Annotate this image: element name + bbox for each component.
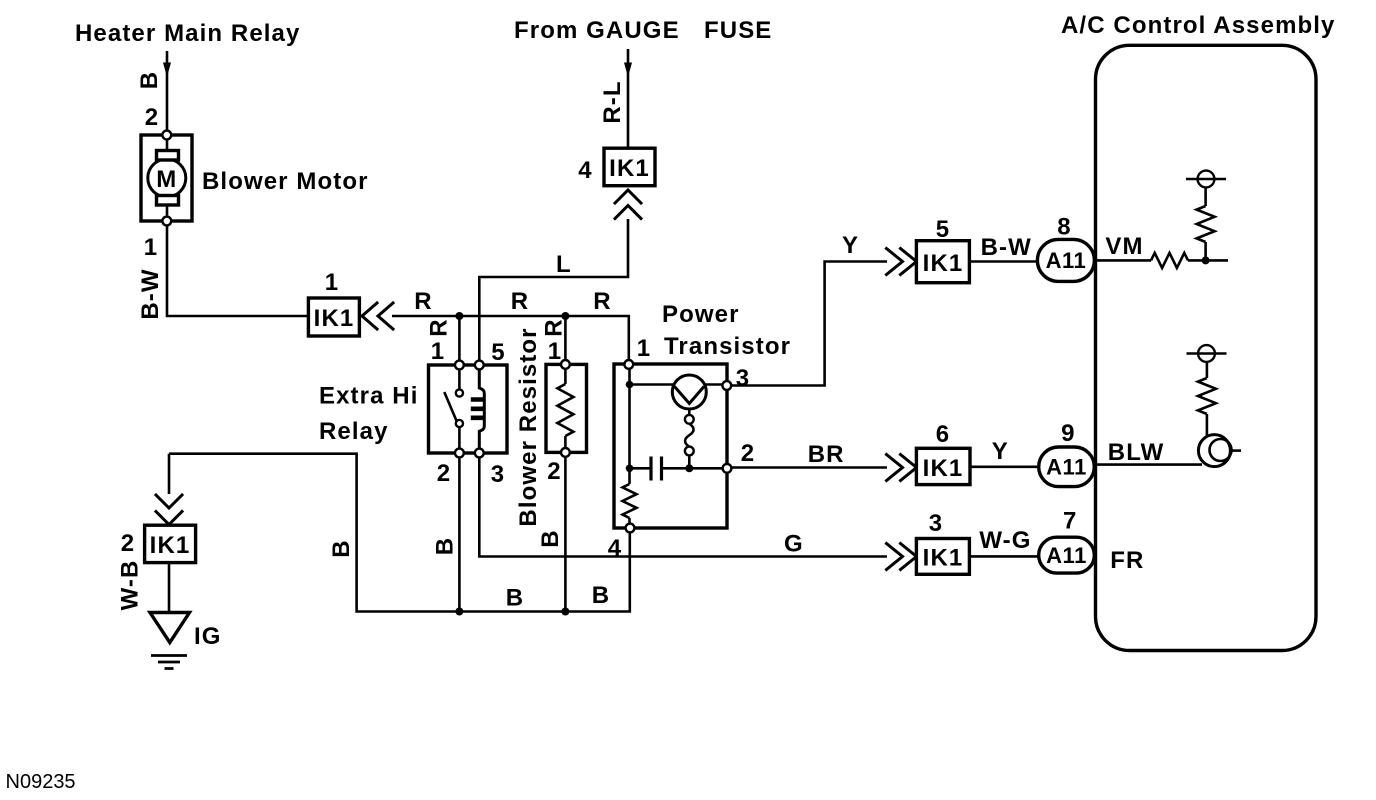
chevrons pointing right at IK1 pin 5 [887,249,917,275]
relay coil [479,369,484,449]
svg-text:IK1: IK1 [314,305,355,332]
internal vertical to pin 4 [628,518,631,524]
blower resistor box [546,364,587,452]
ground hatch [151,656,187,669]
small circle upper (thermo element) [685,415,694,424]
svg-text:Blower Motor: Blower Motor [202,168,369,195]
connector IK1 pin 4 box [604,148,655,186]
transistor circle [672,375,706,409]
svg-text:6: 6 [936,421,950,448]
resistor pin 2 circle [561,448,570,457]
svg-text:R: R [511,288,529,315]
relay switch lower contact [456,420,463,427]
svg-text:4: 4 [578,157,592,184]
svg-text:From GAUGE: From GAUGE [514,17,680,44]
svg-text:5: 5 [936,216,950,243]
svg-text:Y: Y [842,232,859,259]
potentiometer terminal circle with bar [1198,171,1215,188]
svg-text:M: M [156,166,177,193]
wire G from relay pin 3 to IK1 pin 3 [479,457,887,556]
connector A11 pin 8 oval [1037,239,1094,281]
power transistor Q1 [614,360,731,532]
svg-text:W-B: W-B [117,560,144,611]
wire R drop to Blower Resistor pin 1 [564,316,567,361]
motor brush bottom [157,196,179,206]
svg-text:L: L [556,251,572,278]
junction dot on R wire at relay branch [455,312,463,320]
junction dot on R wire at resistor branch [561,312,569,320]
svg-text:Y: Y [992,438,1009,465]
svg-text:Heater Main Relay: Heater Main Relay [75,20,300,47]
potentiometer terminal circle with bar lower [1198,345,1215,362]
svg-text:G: G [784,531,804,558]
chevrons pointing left at IK1 pin 1 [362,303,393,329]
svg-text:4: 4 [608,535,622,562]
wire to transistor circle [630,383,674,386]
svg-text:3: 3 [736,365,750,392]
wire B resistor pin 2 to bus [564,457,567,612]
svg-text:1: 1 [325,269,339,296]
svg-text:B: B [136,71,163,89]
svg-text:B: B [328,539,355,557]
relay pin 1 circle [455,361,464,370]
blower resistor R1 [546,360,587,457]
svg-text:Power: Power [662,301,740,328]
chevrons pointing down above IK1 pin 2 [156,495,182,525]
base wire with capacitor [630,467,652,470]
wire resistor to terminal circle [1204,188,1207,207]
svg-text:1: 1 [431,338,445,365]
resistor lead top [564,369,567,384]
junction dot bus at relay pin 2 [455,608,463,616]
resistor horizontal in assembly [1151,253,1188,268]
svg-text:2: 2 [145,104,159,131]
arrowhead on relay wire [163,63,171,78]
svg-text:R: R [414,288,432,315]
vertical resistor upper in assembly [1197,206,1215,242]
svg-text:FR: FR [1110,547,1144,574]
connector IK1 pin 6 box [916,448,970,484]
transistor circle in assembly [1198,435,1230,467]
resistor pin 1 circle [561,360,570,369]
resistor zigzag [557,384,573,436]
svg-text:R: R [426,318,453,336]
capacitor C1 plates [651,457,662,481]
relay switch lead from pin 1 [458,369,461,389]
svg-text:IK1: IK1 [923,250,964,277]
transistor inner V [675,387,705,404]
svg-text:A11: A11 [1046,543,1087,568]
svg-text:N09235: N09235 [6,771,76,793]
base wire capacitor to pin 2 [662,467,723,470]
wire up from assembly transistor [1206,414,1209,437]
relay switch lead to pin 2 [458,427,461,449]
svg-text:1: 1 [637,335,651,362]
small circle lower (thermo element) [685,447,694,456]
relay coil bars [471,400,485,418]
stub below circle [688,409,691,415]
chevrons pointing up below IK1 pin 4 [615,190,641,219]
svg-text:BR: BR [808,441,845,468]
wire resistor to terminal circle lower [1206,362,1209,378]
junction dot bus at resistor pin 2 [561,608,569,616]
wire IK1 pin 2 to IG ground [168,563,171,613]
wire B-W from IK1 to A11 [969,260,1037,263]
resistor lead bottom [564,436,567,448]
wire W-G from IK1 to A11 pin 7 [969,555,1038,558]
svg-text:B: B [506,585,524,612]
wire B-W from motor pin 1 to connector IK1 pin 1 [167,225,308,316]
svg-text:B: B [592,582,610,609]
svg-text:A/C Control Assembly: A/C Control Assembly [1061,12,1335,39]
connector IK1 pin 1 box [308,298,359,336]
A/C control assembly box [1096,45,1317,650]
vertical resistor lower in assembly [1198,378,1216,414]
svg-text:5: 5 [491,339,505,366]
stub to base node [688,455,691,468]
motor internal lead bottom [166,204,169,217]
wire from resistor to junction [1188,259,1228,262]
svg-text:IK1: IK1 [609,155,650,182]
arrowhead on gauge fuse wire [624,63,632,78]
wire from Heater Main Relay to Blower Motor pin 2 [166,51,169,135]
junction dot on left rail [626,465,634,473]
svg-text:W-G: W-G [979,527,1031,554]
svg-text:IK1: IK1 [923,545,964,572]
svg-text:VM: VM [1105,233,1143,260]
internal vertical from pin 1 [628,369,631,485]
relay switch upper contact [456,389,463,396]
wire R drop to Extra Hi Relay pin 1 [458,316,461,361]
power transistor box [614,364,727,528]
svg-text:Extra Hi: Extra Hi [319,383,419,410]
motor internal lead top [166,139,169,152]
internal resistor zigzag [623,484,637,518]
svg-text:R: R [593,288,611,315]
wire L from IK1 pin 4 down and left to relay pin 5 [479,219,628,361]
connector IK1 pin 2 box [145,525,196,562]
connector IK1 pin 3 box [916,539,969,575]
wire down to IK1 pin 2 [168,454,171,494]
svg-text:IG: IG [194,623,222,650]
svg-text:1: 1 [548,338,562,365]
wire BLW from A11 pin 9 into assembly [1096,463,1203,466]
svg-text:Transistor: Transistor [664,333,791,360]
svg-text:BLW: BLW [1108,439,1165,466]
svg-text:7: 7 [1063,508,1077,535]
relay box [429,365,508,453]
svg-text:2: 2 [741,440,755,467]
svg-text:FUSE: FUSE [704,17,772,44]
transistor pin 4 circle [626,524,635,533]
wire B ground bus from left branch [169,454,630,612]
svg-text:8: 8 [1057,214,1071,241]
transistor pin 1 circle [624,360,633,369]
wire VM node up to resistor [1204,242,1207,260]
wire B relay pin 2 to bus [458,457,461,611]
svg-text:B: B [432,537,459,555]
svg-text:9: 9 [1061,420,1075,447]
connector A11 pin 7 oval [1039,537,1095,573]
blower motor M1 [141,131,192,226]
wire R-L from GAUGE fuse down to IK1 pin 4 [627,49,630,148]
wire circle to pin 3 [705,383,723,386]
IG ground triangle [150,613,190,643]
chevrons pointing right at IK1 pin 3 [887,544,917,570]
stub right of assembly transistor [1231,449,1242,452]
svg-text:IK1: IK1 [150,532,191,559]
svg-text:2: 2 [437,460,451,487]
wire Y from transistor pin 3 to IK1 pin 5 [731,262,887,386]
wire BR from transistor pin 2 to IK1 pin 6 [731,466,887,469]
transistor pin 2 circle [723,464,732,473]
svg-text:A11: A11 [1046,248,1087,273]
svg-text:Blower Resistor: Blower Resistor [515,327,542,526]
junction dot collector branch [626,381,634,389]
relay K1 Extra Hi Relay [429,361,508,458]
motor outer box [141,135,192,221]
svg-text:B: B [537,529,564,547]
relay switch blade [444,392,457,422]
squiggle element [685,424,694,447]
junction dot VM node [1202,256,1210,264]
motor terminal pin 1 [162,217,171,226]
svg-text:B-W: B-W [981,234,1032,261]
svg-text:R: R [541,318,568,336]
connector A11 pin 9 oval [1039,447,1095,487]
motor circle M [148,159,186,197]
inner circle of assembly transistor [1210,439,1232,461]
svg-text:B-W: B-W [137,268,164,319]
svg-text:2: 2 [547,458,561,485]
svg-text:IK1: IK1 [923,455,964,482]
wire VM from A11 pin 8 into assembly [1096,259,1152,262]
svg-text:1: 1 [144,234,158,261]
svg-text:A11: A11 [1046,455,1087,480]
relay pin 2 circle [455,449,464,458]
chevrons pointing right at IK1 pin 6 [887,455,917,481]
svg-text:3: 3 [929,510,943,537]
svg-text:3: 3 [491,461,505,488]
transistor pin 3 circle [722,381,731,390]
svg-text:Relay: Relay [319,418,389,445]
motor terminal pin 2 [162,131,171,140]
connector IK1 pin 5 box [916,241,969,283]
wire Y from IK1 to A11 pin 9 [970,465,1039,468]
motor brush top [157,151,179,161]
wire R main horizontal [392,316,629,361]
relay pin 3 circle [475,449,484,458]
relay pin 5 circle [475,361,484,370]
svg-text:2: 2 [121,530,135,557]
base junction dot [685,464,693,472]
svg-text:R-L: R-L [599,80,626,123]
